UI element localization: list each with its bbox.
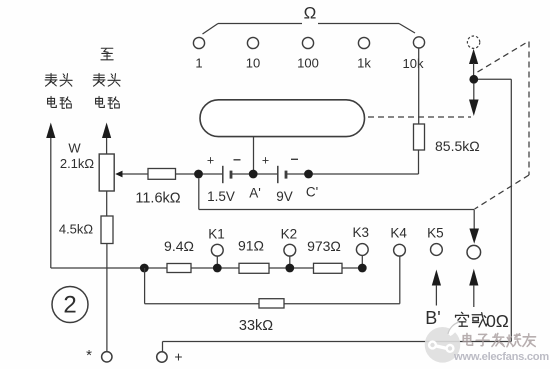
svg-text:K4: K4 <box>390 226 407 241</box>
svg-text:K1: K1 <box>208 227 225 242</box>
svg-text:K2: K2 <box>281 227 298 242</box>
svg-text:+: + <box>207 154 214 168</box>
svg-text:10k: 10k <box>403 56 424 71</box>
svg-text:10: 10 <box>246 56 260 71</box>
svg-text:9.4Ω: 9.4Ω <box>164 238 194 254</box>
svg-text:85.5kΩ: 85.5kΩ <box>435 138 480 154</box>
svg-text:W: W <box>68 141 81 156</box>
svg-text:+: + <box>262 154 269 168</box>
svg-text:Ω: Ω <box>304 4 317 23</box>
svg-text:+: + <box>174 349 182 365</box>
svg-text:A': A' <box>249 186 261 201</box>
svg-text:1: 1 <box>195 56 202 71</box>
svg-text:9V: 9V <box>276 189 293 204</box>
svg-text:1.5V: 1.5V <box>207 189 235 204</box>
svg-text:11.6kΩ: 11.6kΩ <box>135 191 180 207</box>
svg-text:4.5kΩ: 4.5kΩ <box>59 222 94 237</box>
svg-text:*: * <box>86 347 92 364</box>
svg-text:2.1kΩ: 2.1kΩ <box>60 156 95 171</box>
svg-text:0Ω: 0Ω <box>486 311 509 331</box>
svg-text:973Ω: 973Ω <box>307 238 341 254</box>
svg-text:91Ω: 91Ω <box>238 238 264 254</box>
svg-text:C': C' <box>306 185 318 200</box>
svg-text:33kΩ: 33kΩ <box>239 318 273 334</box>
svg-text:B': B' <box>425 308 440 328</box>
svg-text:1k: 1k <box>357 56 371 71</box>
svg-text:www.elecfans.com: www.elecfans.com <box>453 351 549 363</box>
svg-text:K5: K5 <box>427 226 444 241</box>
svg-text:2: 2 <box>63 292 76 319</box>
svg-text:100: 100 <box>297 56 319 71</box>
svg-text:K3: K3 <box>353 225 370 240</box>
